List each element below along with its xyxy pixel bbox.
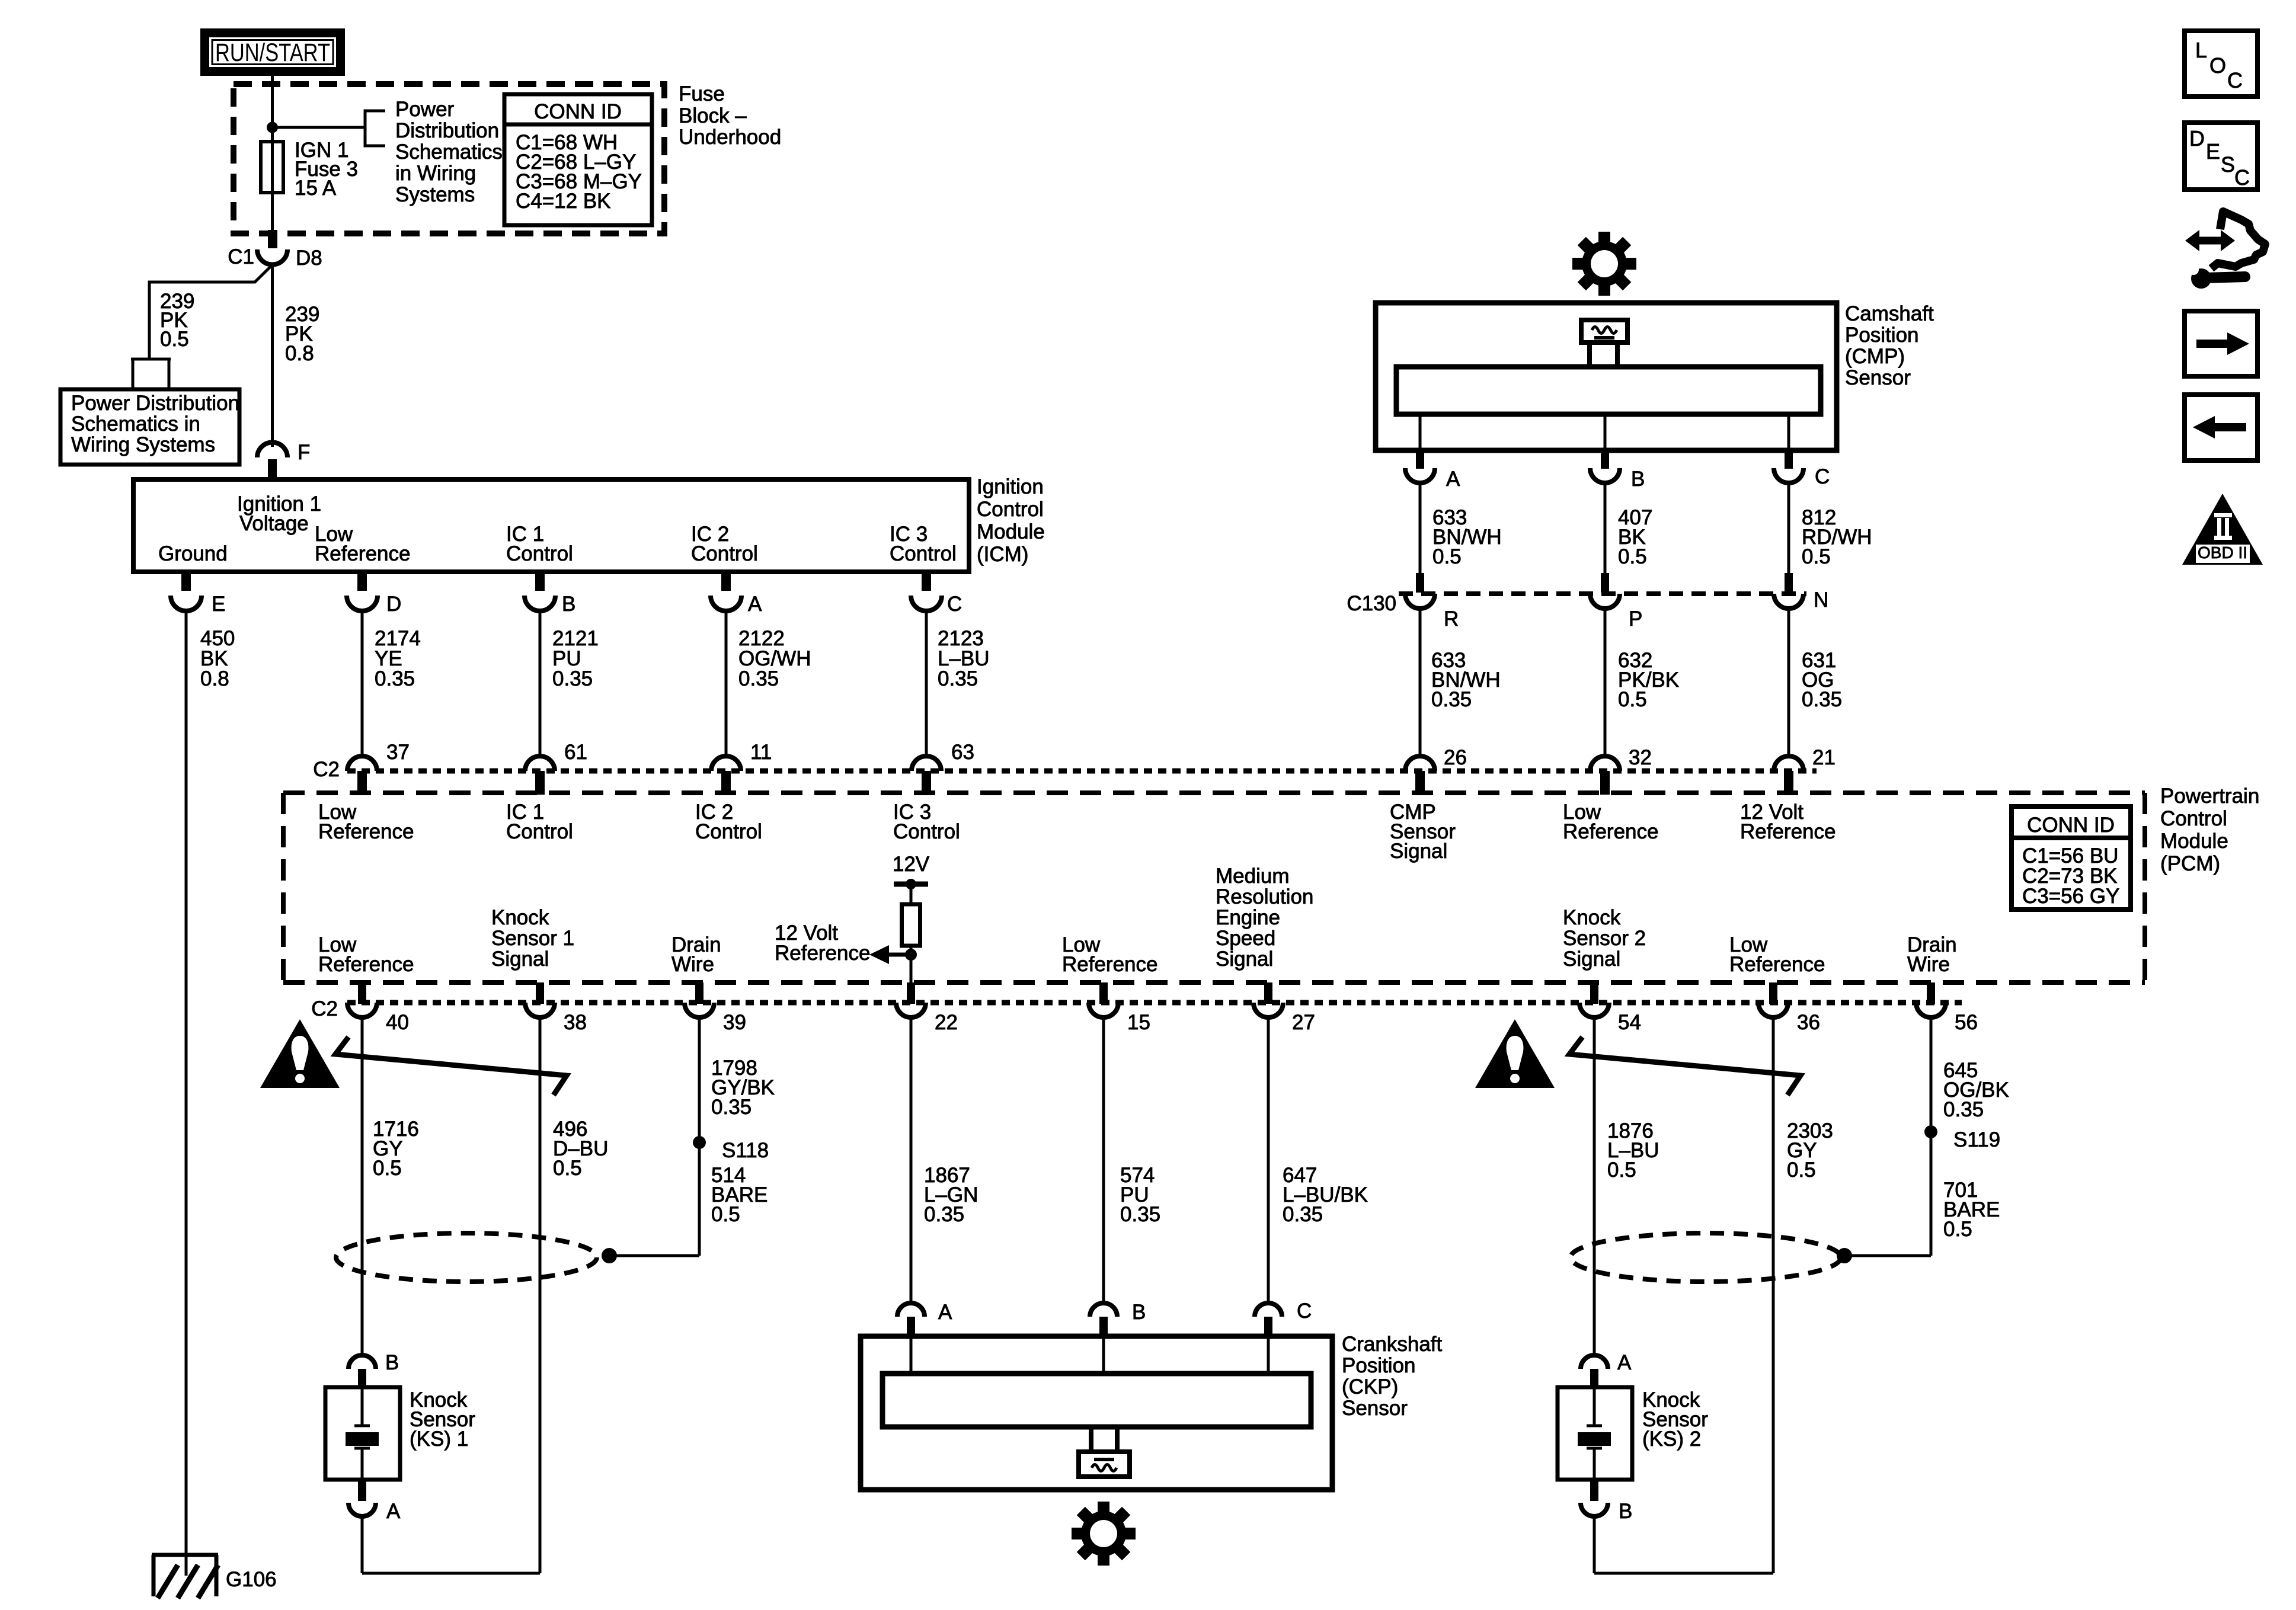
svg-text:Signal: Signal [1216,948,1273,971]
svg-text:Knock: Knock [491,906,549,929]
svg-text:21: 21 [1812,746,1835,769]
svg-text:37: 37 [386,741,410,764]
svg-text:Position: Position [1342,1354,1416,1377]
svg-text:C2: C2 [311,997,338,1020]
svg-text:P: P [1629,607,1642,630]
svg-text:Signal: Signal [1563,948,1620,971]
svg-text:Speed: Speed [1216,927,1275,950]
svg-text:Control: Control [506,542,573,565]
svg-text:22: 22 [935,1011,958,1034]
svg-text:Power Distribution: Power Distribution [71,392,239,415]
svg-text:in Wiring: in Wiring [395,162,476,185]
svg-text:Signal: Signal [1390,840,1447,863]
svg-text:G106: G106 [226,1568,277,1591]
svg-text:0.35: 0.35 [375,667,415,690]
svg-text:0.5: 0.5 [1432,545,1462,568]
svg-text:C: C [947,593,962,616]
svg-text:26: 26 [1444,746,1467,769]
svg-text:Control: Control [890,542,957,565]
svg-text:56: 56 [1955,1011,1978,1034]
svg-text:B: B [562,593,575,616]
svg-text:0.35: 0.35 [711,1096,752,1119]
svg-text:Control: Control [506,820,573,843]
svg-text:Reference: Reference [775,942,870,965]
svg-text:Fuse: Fuse [679,82,725,105]
svg-text:15: 15 [1127,1011,1150,1034]
svg-text:A: A [386,1500,401,1523]
svg-text:0.35: 0.35 [1283,1203,1323,1226]
svg-text:0.8: 0.8 [200,667,229,690]
svg-text:Underhood: Underhood [679,126,781,149]
svg-text:0.5: 0.5 [160,328,189,351]
svg-text:(KS) 1: (KS) 1 [410,1427,468,1451]
svg-text:0.35: 0.35 [938,667,978,690]
svg-text:36: 36 [1797,1011,1820,1034]
svg-text:Control: Control [893,820,960,843]
svg-text:RUN/START: RUN/START [215,39,330,67]
svg-text:11: 11 [750,741,772,764]
svg-text:Schematics in: Schematics in [71,412,200,436]
svg-text:O: O [2209,53,2226,78]
svg-text:A: A [748,593,762,616]
svg-text:S: S [2221,152,2235,177]
svg-text:Control: Control [977,498,1044,521]
svg-text:Wire: Wire [671,953,714,976]
svg-text:0.5: 0.5 [373,1157,402,1180]
svg-text:Position: Position [1845,324,1919,347]
svg-text:Block –: Block – [679,104,747,127]
svg-text:Control: Control [691,542,758,565]
svg-text:Systems: Systems [395,183,475,206]
svg-text:32: 32 [1629,746,1652,769]
svg-text:Reference: Reference [1740,820,1835,843]
svg-text:B: B [1631,468,1645,491]
svg-text:C4=12 BK: C4=12 BK [516,190,611,213]
svg-text:Reference: Reference [1563,820,1658,843]
svg-text:B: B [385,1351,399,1374]
svg-text:0.35: 0.35 [924,1203,964,1226]
svg-text:Reference: Reference [1062,953,1157,976]
svg-text:0.35: 0.35 [552,667,593,690]
svg-text:CONN ID: CONN ID [534,100,622,123]
svg-text:0.5: 0.5 [553,1157,582,1180]
svg-text:0.5: 0.5 [1943,1218,1972,1241]
svg-text:C130: C130 [1347,592,1396,615]
svg-text:C: C [2227,68,2243,92]
svg-text:Reference: Reference [318,953,414,976]
svg-text:F: F [298,441,310,464]
svg-text:38: 38 [564,1011,587,1034]
svg-text:C: C [2234,165,2250,190]
svg-text:D8: D8 [296,247,322,270]
svg-text:Ignition: Ignition [977,475,1044,498]
svg-text:D: D [2189,126,2205,151]
svg-text:39: 39 [723,1011,746,1034]
svg-text:CONN ID: CONN ID [2027,814,2115,837]
svg-text:Wiring Systems: Wiring Systems [71,433,215,456]
svg-text:(CKP): (CKP) [1342,1375,1398,1398]
svg-text:R: R [1444,607,1459,630]
svg-text:12V: 12V [893,853,930,876]
svg-text:Power: Power [395,98,455,121]
svg-text:B: B [1619,1500,1632,1523]
svg-text:(PCM): (PCM) [2160,852,2220,875]
svg-text:0.35: 0.35 [1120,1203,1160,1226]
svg-text:A: A [1446,468,1460,491]
svg-text:Crankshaft: Crankshaft [1342,1333,1443,1356]
svg-text:S118: S118 [722,1139,769,1162]
svg-text:L: L [2195,38,2207,62]
svg-text:63: 63 [951,741,974,764]
svg-text:D: D [386,593,401,616]
svg-text:C1: C1 [228,245,254,268]
svg-text:0.5: 0.5 [1618,545,1647,568]
svg-text:Camshaft: Camshaft [1845,302,1934,325]
svg-text:0.5: 0.5 [1787,1158,1816,1182]
svg-text:Sensor 2: Sensor 2 [1563,927,1646,950]
svg-text:0.35: 0.35 [1943,1098,1984,1121]
svg-text:Reference: Reference [318,820,414,843]
svg-text:Ground: Ground [158,542,228,565]
svg-text:A: A [1617,1351,1632,1374]
svg-text:Engine: Engine [1216,906,1280,929]
svg-text:0.5: 0.5 [1607,1158,1636,1182]
svg-text:0.5: 0.5 [1802,545,1831,568]
svg-text:Voltage: Voltage [239,512,309,535]
svg-text:Distribution: Distribution [395,119,499,142]
svg-text:0.35: 0.35 [738,667,779,690]
svg-text:C3=56 GY: C3=56 GY [2022,885,2119,908]
svg-text:OBD II: OBD II [2198,543,2247,562]
svg-text:0.35: 0.35 [1802,688,1842,711]
svg-text:E: E [212,593,225,616]
svg-text:40: 40 [386,1011,409,1034]
svg-text:Signal: Signal [491,948,549,971]
svg-text:Wire: Wire [1907,953,1950,976]
svg-text:N: N [1814,588,1828,612]
svg-text:54: 54 [1618,1011,1641,1034]
svg-text:(CMP): (CMP) [1845,345,1905,368]
svg-text:Medium: Medium [1216,865,1289,888]
svg-text:A: A [938,1301,952,1324]
svg-text:Control: Control [2160,807,2227,830]
svg-text:C: C [1815,465,1830,488]
svg-text:Sensor: Sensor [1342,1397,1408,1420]
svg-text:0.5: 0.5 [711,1203,740,1226]
svg-text:S119: S119 [1953,1128,2000,1151]
svg-text:Sensor: Sensor [1845,366,1911,389]
svg-text:0.8: 0.8 [285,342,314,365]
svg-text:E: E [2206,139,2220,164]
svg-text:Module: Module [2160,830,2228,853]
svg-text:(KS) 2: (KS) 2 [1642,1427,1701,1451]
svg-text:(ICM): (ICM) [977,543,1028,566]
svg-text:27: 27 [1292,1011,1315,1034]
svg-text:B: B [1132,1301,1146,1324]
svg-text:0.35: 0.35 [1431,688,1472,711]
svg-text:Powertrain: Powertrain [2160,785,2259,808]
svg-text:Resolution: Resolution [1216,885,1313,908]
svg-text:Schematics: Schematics [395,140,503,164]
svg-text:Sensor 1: Sensor 1 [491,927,574,950]
svg-text:Knock: Knock [1563,906,1621,929]
svg-text:C: C [1297,1299,1312,1323]
svg-text:0.5: 0.5 [1618,688,1647,711]
svg-text:C2: C2 [313,758,340,781]
svg-text:Control: Control [695,820,762,843]
svg-text:Reference: Reference [1729,953,1825,976]
svg-text:Reference: Reference [315,542,410,565]
svg-text:Module: Module [977,520,1045,543]
svg-text:15 A: 15 A [295,177,337,200]
svg-text:61: 61 [564,741,587,764]
